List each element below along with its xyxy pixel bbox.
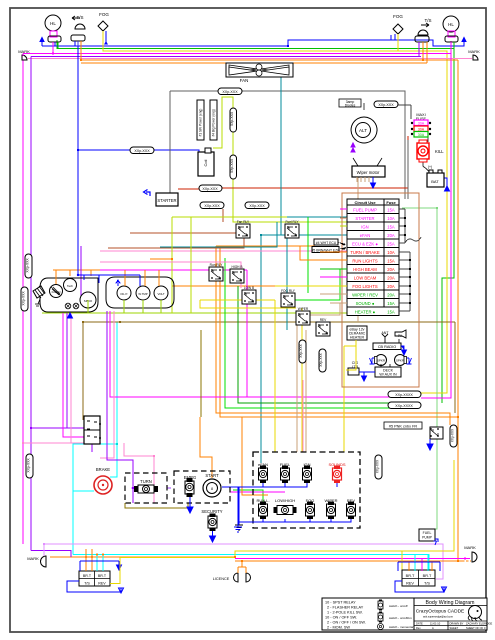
wire yellow right lower bbox=[402, 460, 454, 551]
marker lamp MARK top-left bbox=[18, 49, 30, 60]
wire teal to efan switch bbox=[260, 235, 262, 463]
wire magenta flasher link bbox=[99, 437, 101, 443]
connector oval left1 bbox=[25, 254, 32, 278]
wire tan drop x306 bbox=[305, 330, 307, 452]
svg-text:BRAKE: BRAKE bbox=[96, 467, 110, 472]
svg-text:T/S: T/S bbox=[424, 582, 430, 586]
wire tail left blue drop bbox=[80, 561, 122, 571]
wire green vert x308 bbox=[307, 217, 309, 293]
svg-text:XXp-XXX: XXp-XXX bbox=[319, 352, 323, 366]
wire bottom yellow y557 bbox=[120, 551, 402, 571]
svg-text:START: START bbox=[205, 473, 219, 478]
svg-text:XXp-XXX: XXp-XXX bbox=[202, 187, 218, 191]
fuse output wires right bbox=[399, 209, 410, 311]
svg-text:SOUND ●: SOUND ● bbox=[356, 301, 375, 306]
wire orange riser x172 bbox=[150, 259, 347, 286]
svg-text:Fuse: Fuse bbox=[386, 200, 396, 205]
svg-text:Fuel lvl: Fuel lvl bbox=[52, 290, 61, 294]
headlight HL right bbox=[443, 16, 459, 54]
wire gray oval alt bbox=[398, 104, 411, 106]
svg-text:BAT: BAT bbox=[431, 179, 439, 184]
cluster feed stubs bbox=[56, 46, 161, 313]
wire olive turn bottom bbox=[125, 503, 188, 508]
SWITCH PANEL bbox=[234, 452, 360, 532]
relay run lts bbox=[209, 263, 223, 281]
svg-text:XXp-XXXX: XXp-XXXX bbox=[395, 404, 413, 408]
svg-text:SPKR: SPKR bbox=[377, 359, 386, 363]
svg-text:STARTER: STARTER bbox=[355, 216, 374, 221]
wire panel stub orange bbox=[242, 417, 268, 495]
svg-text:PA: PA bbox=[398, 334, 403, 338]
svg-text:Wiper motor: Wiper motor bbox=[357, 170, 380, 175]
wire gray kill bat bbox=[423, 160, 431, 173]
wire ltgreen vert x172 bbox=[171, 217, 173, 313]
wire brown bus y322 bbox=[83, 321, 455, 323]
wire tail right blue loop bbox=[395, 562, 447, 592]
wire green relay6 right bbox=[295, 269, 340, 300]
wire ltgreen vert x191 bbox=[190, 217, 192, 313]
indicator bulb 2 bbox=[73, 303, 79, 309]
svg-text:LOW/HIGH: LOW/HIGH bbox=[275, 498, 295, 503]
svg-text:XXp-XXX: XXp-XXX bbox=[451, 428, 455, 442]
wire top blue lamp bus bbox=[42, 45, 288, 47]
svg-text:TURN: TURN bbox=[140, 479, 152, 484]
cluster right pod outline bbox=[106, 277, 174, 308]
node bottom swap junction bbox=[234, 556, 236, 558]
svg-text:KILL: KILL bbox=[435, 149, 444, 154]
wire blue bat ground hook bbox=[441, 178, 447, 188]
svg-text:HL: HL bbox=[50, 21, 56, 26]
wire blue start ground bbox=[222, 487, 239, 525]
connector oval left3 bbox=[26, 454, 33, 478]
heater box bbox=[347, 326, 367, 340]
ground hatch right of start bbox=[235, 525, 243, 530]
svg-text:LOW BEAM: LOW BEAM bbox=[354, 276, 377, 281]
wire yellow drop1 bbox=[274, 300, 276, 452]
wire ltgreen horiz y217 bbox=[172, 216, 287, 218]
svg-text:15A: 15A bbox=[387, 259, 395, 264]
wire cyan left vertical bbox=[110, 322, 117, 477]
marker lamp MARK top-right bbox=[466, 49, 480, 60]
wire yellow bus y300 bbox=[200, 299, 275, 301]
wire teal relay2 left bbox=[160, 222, 277, 247]
wire cyan brake stub bbox=[73, 490, 94, 492]
svg-text:15A: 15A bbox=[387, 301, 395, 306]
wiper motor bbox=[352, 158, 385, 188]
oil pressure gauge bbox=[117, 286, 131, 300]
wire tan bus y315 bbox=[297, 303, 340, 315]
svg-text:T/S: T/S bbox=[424, 18, 431, 23]
wire pink y262 bbox=[100, 262, 241, 288]
svg-text:20A: 20A bbox=[387, 293, 395, 298]
wire purple cluster vert bbox=[80, 246, 82, 302]
wire bottom purple y556 bbox=[31, 551, 71, 558]
connector oval bottom mid1 bbox=[388, 391, 421, 398]
wire gray feed to starter bbox=[169, 91, 171, 193]
svg-text:MARK: MARK bbox=[27, 556, 39, 561]
ground panel bbox=[234, 522, 242, 532]
octopus logo bbox=[468, 606, 482, 622]
svg-text:XXp-XXX: XXp-XXX bbox=[299, 343, 303, 357]
wire green mid down bbox=[225, 258, 390, 408]
node cluster blue junction bbox=[77, 274, 79, 276]
wire tail left blue ground loop bbox=[67, 581, 124, 593]
tail light right table bbox=[395, 555, 447, 593]
wire blue cig to deck bbox=[359, 372, 375, 381]
svg-text:Run RLY: Run RLY bbox=[210, 263, 224, 267]
wire bottom bus cyan bbox=[73, 555, 429, 572]
svg-text:DRAWN BY: DRAWN BY bbox=[450, 621, 464, 625]
svg-text:FUEL PUMP: FUEL PUMP bbox=[353, 208, 377, 213]
wire top bus purple bbox=[31, 56, 421, 58]
TITLE BLOCK bbox=[322, 598, 493, 630]
fuse table grid bbox=[347, 199, 399, 307]
wire orange fuse run feed bbox=[300, 246, 347, 260]
svg-text:ECU & EZK ●: ECU & EZK ● bbox=[352, 242, 378, 247]
svg-text:W/ AUX IN: W/ AUX IN bbox=[379, 373, 397, 377]
svg-text:#4 Big Power (eng): #4 Big Power (eng) bbox=[212, 109, 216, 136]
wire right magenta vertical bbox=[421, 41, 451, 398]
PA speaker bbox=[395, 330, 406, 343]
wire tan wiper drop bbox=[357, 174, 359, 322]
wire red starter to right bbox=[178, 188, 199, 190]
connector oval mid2 bbox=[245, 202, 269, 209]
svg-text:25A: 25A bbox=[387, 242, 395, 247]
AUDIO SECTION bbox=[299, 326, 412, 381]
power strip 4 Big Power bbox=[210, 100, 217, 140]
node pink turn pin bbox=[153, 487, 156, 490]
CB radio bbox=[373, 343, 407, 355]
turn signal T/S left bbox=[71, 15, 85, 60]
connector oval vertical x233 upper bbox=[230, 108, 237, 132]
svg-text:MARK: MARK bbox=[468, 49, 480, 54]
svg-text:#5 PNK cnbx FR: #5 PNK cnbx FR bbox=[389, 424, 418, 428]
maxi fuse block bbox=[411, 113, 431, 137]
wire teal to efan fuse bbox=[261, 234, 347, 236]
wire purple bus y428 bbox=[31, 427, 84, 429]
svg-text:20A: 20A bbox=[387, 276, 395, 281]
svg-text:MARK: MARK bbox=[464, 545, 476, 550]
connector oval bottom mid2 bbox=[388, 402, 421, 409]
wire green bus y313 bbox=[42, 312, 347, 314]
svg-text:switch - on/off: switch - on/off bbox=[389, 604, 408, 608]
indicator bulb 1 bbox=[65, 303, 71, 309]
wire tail left cyan drop bbox=[97, 555, 103, 572]
wire tail left yellow riser bbox=[110, 558, 120, 584]
power strip 1 SW Power bbox=[197, 100, 204, 140]
wire panel blue bus row1 bbox=[263, 483, 337, 487]
fuse panel outline bbox=[342, 193, 419, 387]
wire yellow relay7 bbox=[200, 300, 296, 308]
svg-text:20A: 20A bbox=[387, 267, 395, 272]
wire pink turn feed bbox=[124, 443, 154, 503]
svg-text:XXp-XXXX: XXp-XXXX bbox=[395, 393, 413, 397]
svg-text:LOW B: LOW B bbox=[244, 286, 254, 290]
wire orange start feed bbox=[200, 417, 212, 478]
wire pink bus y443 bbox=[23, 442, 101, 444]
svg-text:(+): (+) bbox=[428, 165, 432, 169]
svg-text:HEATER ●: HEATER ● bbox=[355, 310, 376, 315]
svg-text:SPKR: SPKR bbox=[396, 359, 405, 363]
wire cyan branch left bbox=[73, 444, 117, 555]
svg-text:2 - ON / OFF / ON SW.: 2 - ON / OFF / ON SW. bbox=[327, 621, 366, 625]
node junction dots bbox=[22, 45, 466, 562]
svg-text:LICENCE: LICENCE bbox=[213, 577, 230, 581]
svg-text:REV: REV bbox=[320, 318, 327, 322]
wire magenta relay5 bbox=[246, 270, 248, 288]
speaker right bbox=[395, 355, 412, 366]
wire panel stub magenta bbox=[230, 491, 285, 493]
ignition coil bbox=[198, 148, 214, 176]
wire brown flasher drop bbox=[82, 322, 84, 420]
wire olive tan drop x201 bbox=[200, 330, 202, 417]
svg-text:#1 SW Power (eng): #1 SW Power (eng) bbox=[199, 109, 203, 137]
wire orange mid down2 bbox=[220, 248, 458, 417]
svg-text:MARK: MARK bbox=[18, 49, 30, 54]
legend box bbox=[322, 598, 420, 630]
connector oval vertical x233 lower bbox=[230, 155, 237, 179]
svg-text:Fan RLY: Fan RLY bbox=[237, 220, 250, 224]
connector oval starter bbox=[199, 185, 222, 192]
wire blue coil feed bbox=[78, 150, 199, 153]
fuel level gauge bbox=[50, 285, 63, 298]
wire purple cluster vertical2 bbox=[107, 311, 133, 503]
svg-text:8: 8 bbox=[211, 487, 213, 491]
relay rev bbox=[316, 318, 330, 336]
wire brown relay1 down bbox=[108, 238, 244, 248]
svg-text:FAN: FAN bbox=[240, 78, 249, 83]
wire gray maxi kill bbox=[427, 136, 429, 142]
svg-text:XXp-XXX: XXp-XXX bbox=[134, 149, 150, 153]
ground emrg bbox=[187, 497, 193, 513]
svg-text:HL: HL bbox=[448, 22, 454, 27]
svg-text:SHEET: SHEET bbox=[450, 626, 459, 630]
wire red starter feed right bbox=[221, 136, 408, 188]
svg-text:FOG: FOG bbox=[99, 12, 109, 17]
svg-text:XXp-XXX: XXp-XXX bbox=[222, 90, 238, 94]
svg-text:15A: 15A bbox=[387, 225, 395, 230]
relay high beam bbox=[230, 265, 244, 283]
relay wiper bbox=[296, 307, 310, 325]
svg-text:IGN: IGN bbox=[361, 225, 368, 230]
marker lamp MARK bottom-left bbox=[27, 544, 46, 567]
svg-text:ask.supersedge@aol.com: ask.supersedge@aol.com bbox=[423, 615, 453, 619]
wire brown right drop bbox=[454, 322, 456, 413]
svg-text:30A: 30A bbox=[418, 133, 425, 137]
wire bundle break squiggle bbox=[405, 237, 421, 243]
connector oval vert mid1 bbox=[299, 340, 306, 363]
svg-text:HEATER: HEATER bbox=[350, 336, 365, 340]
svg-text:2 - FLASHER RELAY: 2 - FLASHER RELAY bbox=[327, 606, 364, 610]
ground cluster bbox=[68, 313, 73, 318]
svg-text:Body Wiring Diagram: Body Wiring Diagram bbox=[425, 600, 474, 606]
svg-text:WIPER / REV: WIPER / REV bbox=[352, 293, 378, 298]
svg-text:Coil: Coil bbox=[203, 159, 208, 166]
turn switch dashed box bbox=[125, 473, 167, 503]
wire tail left orange drop1 bbox=[85, 549, 87, 571]
brake lamp bbox=[94, 467, 112, 494]
wire tail left orange drop2 bbox=[91, 549, 93, 571]
switch FUEL bbox=[280, 462, 291, 483]
connector oval XXp-XXX top gray bbox=[218, 88, 242, 95]
FUSE PANEL bbox=[311, 193, 421, 387]
starter motor bbox=[144, 190, 179, 207]
water temp gauge bbox=[136, 286, 150, 300]
fog lamp right bbox=[393, 14, 403, 51]
legend switch glyph1 bbox=[378, 601, 383, 609]
BOTTOM LEFT COMPONENTS bbox=[84, 416, 243, 542]
wire gray bat bundle bbox=[407, 140, 409, 199]
wire brown relay1 feed bbox=[222, 209, 224, 222]
wire brown relay1 left bbox=[130, 232, 236, 234]
wire magenta cluster verticals bbox=[110, 311, 247, 397]
wire top bus yellow bbox=[103, 40, 447, 393]
wire gray maxi bundle bbox=[410, 105, 412, 119]
svg-text:REV: REV bbox=[406, 582, 414, 586]
emrg start dashed box bbox=[174, 471, 230, 503]
svg-text:WIPER: WIPER bbox=[298, 307, 309, 311]
fuel level sender bbox=[33, 286, 45, 306]
fuel pump bbox=[419, 529, 438, 545]
svg-text:20A: 20A bbox=[387, 233, 395, 238]
switch REV bbox=[347, 498, 356, 519]
svg-text:XXp-XXX: XXp-XXX bbox=[376, 459, 380, 473]
cluster left pod outline bbox=[40, 278, 98, 312]
wire top bus orange2 bbox=[81, 62, 427, 64]
svg-text:RUN LIGHTS: RUN LIGHTS bbox=[352, 259, 378, 264]
svg-text:10 - ON / OFF SW.: 10 - ON / OFF SW. bbox=[325, 616, 357, 620]
switch IGN bbox=[303, 462, 312, 483]
wire pink bus y251 bbox=[100, 250, 350, 252]
blue arrow up left HL bbox=[40, 38, 44, 47]
heater row below table bbox=[347, 307, 399, 316]
licence lamps bbox=[213, 561, 251, 582]
svg-text:XXp-XXX: XXp-XXX bbox=[26, 258, 30, 273]
wire left magenta vertical bbox=[22, 54, 24, 545]
svg-text:ZACHARY ELDRIDGE: ZACHARY ELDRIDGE bbox=[466, 621, 493, 625]
switch WIPER bbox=[324, 498, 337, 519]
wire gray top feed bbox=[170, 90, 218, 92]
title box bbox=[414, 598, 493, 630]
svg-text:CrazyOctopus CADDE: CrazyOctopus CADDE bbox=[416, 609, 465, 615]
wire bottom bus magenta bbox=[235, 558, 470, 560]
svg-text:10A: 10A bbox=[387, 216, 395, 221]
relay fog bbox=[281, 289, 296, 307]
connector oval coil feed bbox=[130, 147, 154, 154]
wire yellowgreen coil to ign bbox=[213, 97, 347, 226]
svg-text:Rev: Rev bbox=[416, 626, 421, 630]
connector oval mid1 bbox=[200, 202, 224, 209]
svg-text:15A: 15A bbox=[387, 310, 395, 315]
wire yellow fog fuse bbox=[275, 285, 320, 287]
connector oval vert mid2 bbox=[319, 349, 326, 372]
fan assembly bbox=[226, 63, 293, 83]
svg-text:FUEL: FUEL bbox=[423, 531, 432, 535]
switch LOW/HIGH bbox=[274, 498, 297, 515]
svg-text:30A: 30A bbox=[418, 122, 425, 126]
relay fuel RLY bbox=[285, 220, 299, 238]
svg-text:ALT: ALT bbox=[359, 128, 367, 133]
svg-text:PUMP: PUMP bbox=[422, 536, 433, 540]
svg-text:HIGH B: HIGH B bbox=[232, 265, 243, 269]
svg-text:1 - 2-POLE KILL SW.: 1 - 2-POLE KILL SW. bbox=[327, 611, 363, 615]
wire gray oval to right bbox=[242, 91, 405, 199]
svg-text:XXp-XXX: XXp-XXX bbox=[27, 458, 31, 473]
panel dashed outline bbox=[253, 452, 360, 528]
connector oval vert right2 bbox=[375, 455, 382, 479]
BOTTOM LAMPS bbox=[27, 391, 477, 593]
wire purple turn right bbox=[167, 487, 171, 489]
svg-text:15A: 15A bbox=[387, 208, 395, 213]
battery BAT bbox=[427, 165, 450, 191]
pnk label box bbox=[384, 422, 422, 429]
connector oval left2 bbox=[21, 287, 28, 311]
svg-text:A: A bbox=[432, 626, 434, 630]
svg-text:STARTER: STARTER bbox=[157, 198, 176, 203]
flasher relay block bbox=[84, 416, 101, 444]
wire gray alt to maxi bbox=[363, 103, 365, 110]
wire top blue step to right bbox=[288, 35, 391, 46]
fog lamp left bbox=[98, 12, 109, 51]
svg-text:#4 WHT ECU: #4 WHT ECU bbox=[316, 241, 337, 245]
wire yellow heater net bbox=[344, 340, 356, 370]
wire blue vertical x78 bbox=[77, 42, 79, 150]
svg-text:TURN / BRAKE: TURN / BRAKE bbox=[350, 250, 380, 255]
wire green fuelpump fuse right bbox=[402, 208, 437, 529]
svg-text:FOG LIGHTS: FOG LIGHTS bbox=[352, 284, 378, 289]
svg-text:Fuel RLY: Fuel RLY bbox=[285, 220, 299, 224]
wire magenta bus y270 bbox=[100, 269, 247, 271]
svg-text:XXp-XXX: XXp-XXX bbox=[230, 111, 234, 126]
relay small right bbox=[427, 427, 443, 450]
wire purple flasher stub bbox=[91, 444, 93, 452]
legend switch glyph2 bbox=[378, 613, 383, 621]
wire blue right lamps bbox=[391, 38, 464, 46]
svg-text:BR.T: BR.T bbox=[83, 574, 92, 578]
svg-text:10A: 10A bbox=[387, 250, 395, 255]
wire panel blue link bbox=[238, 487, 263, 522]
wire pink cluster vertical bbox=[100, 311, 114, 458]
svg-text:XXp-XXX: XXp-XXX bbox=[204, 204, 220, 208]
wire tail right drops bbox=[408, 561, 410, 571]
svg-text:VOLT: VOLT bbox=[157, 292, 164, 296]
relay fan RLY bbox=[236, 220, 250, 238]
wire yellow drop3 bbox=[343, 346, 345, 452]
security switch bbox=[201, 509, 222, 542]
svg-text:XXp-XXX: XXp-XXX bbox=[249, 204, 265, 208]
svg-text:11-01-10: 11-01-10 bbox=[430, 621, 441, 625]
connector oval alt bbox=[374, 101, 398, 108]
svg-text:Circuit Use: Circuit Use bbox=[354, 200, 376, 205]
wire teal fan down bbox=[280, 77, 282, 235]
wire top bus orange1 bbox=[81, 59, 458, 61]
svg-text:30A: 30A bbox=[418, 128, 425, 132]
svg-text:REV: REV bbox=[98, 582, 106, 586]
node purple turn pin bbox=[132, 487, 135, 490]
wire orange cluster bus bbox=[53, 269, 159, 271]
svg-text:FOG RLY: FOG RLY bbox=[281, 289, 296, 293]
ecu label box bbox=[314, 239, 346, 246]
cig lighter bbox=[348, 361, 359, 375]
wire bottom bus pink bbox=[44, 544, 443, 579]
switch SOUNDS red bbox=[328, 462, 345, 483]
switch RUN L bbox=[256, 498, 269, 519]
wire top bus pink bbox=[28, 58, 466, 60]
wire tan x297 bbox=[296, 322, 298, 452]
switch FOG bbox=[306, 498, 315, 519]
relay low beam bbox=[242, 286, 256, 304]
blue arrow up right HL bbox=[462, 38, 466, 47]
